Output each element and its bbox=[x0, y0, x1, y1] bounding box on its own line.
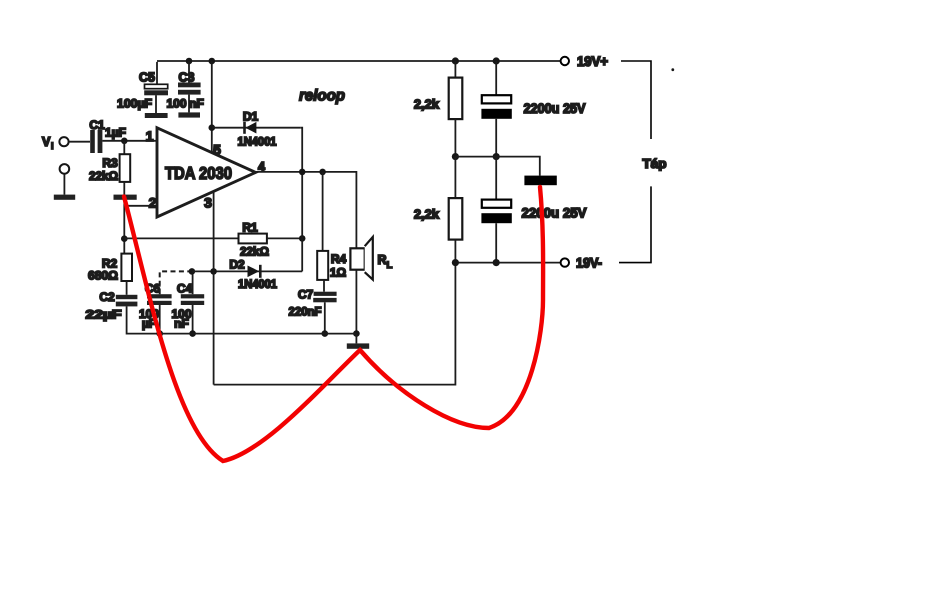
capacitor C3 bbox=[178, 83, 201, 113]
ground bar under C5 bbox=[145, 113, 168, 118]
wire C6 bottom lead bbox=[159, 305, 161, 334]
ground bar output bbox=[347, 343, 369, 348]
terminal input ground bbox=[60, 164, 70, 174]
svg-text:nF: nF bbox=[189, 97, 204, 111]
capacitor C8 2200u upper bbox=[481, 95, 511, 119]
svg-text:C7: C7 bbox=[298, 288, 314, 302]
svg-text:3: 3 bbox=[204, 195, 212, 211]
wire R1 right to node bbox=[267, 237, 302, 239]
wire R4 top lead bbox=[322, 172, 324, 251]
wire 2,2k lower bottom lead bbox=[454, 240, 456, 263]
svg-text:V: V bbox=[42, 135, 51, 149]
node pin5 rail junction bbox=[209, 58, 216, 65]
wire D2 row bbox=[214, 270, 303, 272]
node mid rail / C8 bbox=[493, 153, 500, 160]
svg-text:100µF: 100µF bbox=[117, 97, 152, 111]
svg-text:R: R bbox=[378, 253, 387, 267]
svg-text:C2: C2 bbox=[99, 290, 115, 304]
svg-text:1N4001: 1N4001 bbox=[238, 279, 278, 291]
wire C4 top lead bbox=[192, 271, 194, 294]
speaker RL bbox=[350, 237, 372, 280]
svg-text:Táp: Táp bbox=[643, 157, 667, 171]
ground pad (black bar) bbox=[524, 176, 556, 186]
wire C4 bottom lead bbox=[192, 305, 194, 334]
svg-text:2,2k: 2,2k bbox=[414, 207, 440, 222]
terminal 19V+ bbox=[561, 57, 569, 65]
wire R4 to C7 bbox=[323, 280, 325, 292]
value 100 nF bbox=[166, 97, 203, 111]
wire 2,2k upper top lead bbox=[454, 61, 456, 78]
svg-text:C3: C3 bbox=[179, 71, 195, 85]
svg-text:220nF: 220nF bbox=[289, 305, 322, 319]
wire Tap bracket bottom bbox=[619, 186, 651, 262]
value 100uF (C6) bbox=[139, 307, 159, 331]
svg-text:R1: R1 bbox=[242, 221, 258, 235]
red ground link annotation bbox=[124, 187, 543, 461]
resistor R6 2,2k lower bbox=[449, 198, 463, 240]
wire Tap bracket top bbox=[621, 61, 651, 139]
node -19V rail left bbox=[452, 259, 459, 266]
wire C7 bottom lead bbox=[324, 302, 326, 333]
node RL bottom bbox=[353, 330, 360, 337]
wire feedback vertical bbox=[301, 172, 303, 272]
label RL bbox=[378, 253, 393, 271]
svg-text:D2: D2 bbox=[229, 258, 245, 272]
diode D2 bbox=[248, 265, 261, 278]
wire C5 top lead bbox=[156, 62, 158, 85]
wire mid rail bbox=[455, 157, 539, 176]
capacitor C9 2200u lower bbox=[481, 200, 511, 224]
ground bar at pin2 node bbox=[114, 195, 137, 200]
wire input ground lead bbox=[63, 174, 65, 195]
op-amp U1 TDA 2030 bbox=[157, 128, 256, 217]
wire C1 to pin1 bbox=[102, 140, 156, 142]
svg-text:C5: C5 bbox=[139, 71, 155, 85]
node top rail / 2,2k upper bbox=[452, 57, 459, 64]
wire pin 5 vertical bbox=[211, 61, 213, 153]
svg-text:TDA 2030: TDA 2030 bbox=[165, 163, 232, 183]
node output/R4 bbox=[319, 169, 326, 176]
svg-text:L: L bbox=[387, 260, 393, 271]
capacitor C1 bbox=[90, 130, 102, 153]
wire +19V top rail bbox=[157, 60, 561, 62]
wire C6 dashed link bbox=[160, 271, 192, 294]
wire Vi to C1 bbox=[69, 141, 90, 143]
svg-text:R4: R4 bbox=[331, 252, 347, 266]
resistor R1 bbox=[239, 234, 267, 244]
wire -19V rail bbox=[455, 262, 560, 264]
node mid rail left bbox=[452, 153, 459, 160]
svg-text:680Ω: 680Ω bbox=[88, 269, 118, 283]
wire bottom signal-ground rail bbox=[160, 333, 357, 335]
stray dot artifact bbox=[671, 68, 674, 71]
resistor R4 bbox=[317, 251, 328, 280]
diode D1 bbox=[245, 122, 257, 134]
wire 2,2k lower top lead bbox=[454, 157, 456, 199]
node C4 top bbox=[189, 268, 196, 275]
svg-text:2,2k: 2,2k bbox=[414, 97, 440, 112]
wire C4 node to D2 row bbox=[192, 270, 214, 272]
terminal input Vi bbox=[59, 137, 68, 146]
wire C8 top lead bbox=[495, 61, 497, 95]
wire inverting row to R1 bbox=[124, 237, 238, 239]
wire R3 top lead bbox=[123, 141, 125, 154]
ground bar under C3 bbox=[178, 112, 200, 117]
value 100 nF (C4) bbox=[171, 307, 191, 331]
svg-text:reloop: reloop bbox=[299, 88, 345, 105]
node C7 bottom bbox=[322, 330, 329, 337]
wire C9 bottom lead bbox=[495, 223, 497, 262]
node C6 bottom bbox=[156, 330, 163, 337]
capacitor C7 bbox=[313, 292, 336, 303]
svg-text:C1: C1 bbox=[89, 118, 105, 132]
node R1 right bbox=[299, 235, 306, 242]
svg-text:C4: C4 bbox=[177, 282, 193, 296]
wire C2 to bottom rail bbox=[127, 306, 160, 333]
svg-text:1µF: 1µF bbox=[105, 126, 126, 140]
ground bar input bbox=[54, 195, 75, 200]
svg-text:5: 5 bbox=[213, 142, 221, 158]
svg-text:R3: R3 bbox=[102, 156, 118, 170]
resistor R5 2,2k upper bbox=[449, 78, 463, 120]
wire R3 bottom through bar to R2 bbox=[123, 182, 125, 254]
node D1 junction bbox=[209, 124, 216, 131]
svg-text:19V-: 19V- bbox=[576, 256, 602, 271]
svg-text:19V+: 19V+ bbox=[577, 54, 608, 69]
node C3 top bbox=[186, 58, 193, 65]
svg-text:2200u 25V: 2200u 25V bbox=[524, 101, 586, 116]
wire -Vs bottom run bbox=[214, 263, 456, 385]
label Vi bbox=[42, 135, 54, 151]
capacitor C4 bbox=[181, 294, 204, 305]
wire RL bottom lead bbox=[355, 270, 357, 334]
terminal 19V- bbox=[561, 258, 569, 266]
wire output pin 4 row bbox=[256, 172, 357, 248]
node R2 top junction bbox=[121, 235, 128, 242]
svg-text:22kΩ: 22kΩ bbox=[240, 245, 269, 259]
svg-text:i: i bbox=[51, 141, 54, 151]
wire R2 to C2 bbox=[126, 281, 128, 295]
capacitor C2 bbox=[116, 295, 138, 307]
wire pin 3 / -Vs vertical bbox=[213, 191, 215, 385]
wire C3 top lead bbox=[188, 61, 190, 83]
wire 2,2k upper bottom lead bbox=[454, 119, 456, 157]
node C1/R3 junction bbox=[121, 138, 128, 145]
wire D1 anode row bbox=[212, 127, 301, 129]
svg-text:100: 100 bbox=[166, 97, 186, 111]
svg-text:22µF: 22µF bbox=[86, 308, 122, 322]
resistor R2 bbox=[121, 254, 132, 281]
svg-text:1N4001: 1N4001 bbox=[238, 137, 278, 149]
svg-text:22kΩ: 22kΩ bbox=[89, 169, 118, 183]
node output/feedback bbox=[299, 169, 306, 176]
svg-text:D1: D1 bbox=[243, 110, 259, 124]
wire D1 to output node vertical bbox=[301, 128, 303, 172]
capacitor C6 bbox=[147, 294, 172, 305]
svg-text:nF: nF bbox=[174, 317, 189, 331]
svg-text:2: 2 bbox=[149, 195, 157, 211]
svg-text:2200u 25V: 2200u 25V bbox=[522, 206, 587, 221]
capacitor C5 bbox=[144, 84, 168, 113]
resistor R3 bbox=[120, 154, 131, 182]
wire pin 2 stub bbox=[124, 205, 156, 207]
svg-text:1Ω: 1Ω bbox=[330, 266, 347, 280]
wire C8 bottom lead bbox=[495, 119, 497, 157]
node D2 left bbox=[210, 268, 217, 275]
node -19V rail / C9 bbox=[493, 259, 500, 266]
wire C9 top lead bbox=[495, 157, 497, 200]
node top rail / C8 bbox=[493, 57, 500, 64]
wire stub to output ground bar bbox=[355, 334, 357, 344]
node C4 bottom bbox=[189, 330, 196, 337]
